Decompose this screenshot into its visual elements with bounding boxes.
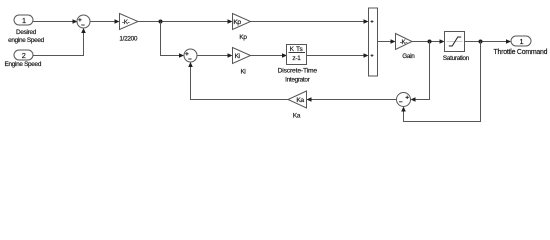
svg-text:1: 1 xyxy=(22,16,26,25)
svg-text:engine Speed: engine Speed xyxy=(8,37,45,44)
svg-text:-K-: -K- xyxy=(400,39,408,46)
junction after Gain xyxy=(428,40,432,44)
svg-text:z-1: z-1 xyxy=(292,55,301,62)
wire gain Kp to sum S4 xyxy=(251,19,369,24)
gain Kp xyxy=(233,14,251,42)
gain Ka (left pointing) xyxy=(288,91,307,120)
svg-text:Ka: Ka xyxy=(293,113,301,120)
svg-text:Desired: Desired xyxy=(16,29,37,36)
junction after saturation xyxy=(479,40,483,44)
wire junction down to sum S2 xyxy=(161,22,185,58)
inport 1 (Desired engine Speed) xyxy=(8,15,45,44)
sum S1 (+ -) xyxy=(77,15,90,28)
svg-text:Throttle Command: Throttle Command xyxy=(493,49,547,56)
wire sum S3 to gain Ka xyxy=(307,97,397,102)
svg-text:Engine Speed: Engine Speed xyxy=(5,61,42,68)
discrete-time integrator block (K Ts / z-1) xyxy=(278,45,318,84)
wire gain Ka to sum S2 bottom input xyxy=(188,62,288,100)
sum S4 (rectangular ++) xyxy=(369,8,378,76)
sum S2 (+ -) xyxy=(184,49,197,62)
wire sum S2 to gain Ki xyxy=(197,53,233,58)
inport 2 (Engine Speed) xyxy=(5,50,42,68)
gain Gain (-K-) xyxy=(396,34,416,60)
wire junction down to sum S3 right input xyxy=(411,42,430,102)
gain Ki xyxy=(233,48,251,76)
sum S3 (+ -) xyxy=(397,93,411,107)
saturation block xyxy=(443,32,470,63)
svg-text:1: 1 xyxy=(519,37,523,46)
gain block -K- (1/2200) xyxy=(119,14,138,43)
svg-text:2: 2 xyxy=(22,51,26,60)
svg-text:Ki: Ki xyxy=(240,68,245,75)
svg-text:1/2200: 1/2200 xyxy=(119,35,137,42)
junction on error signal xyxy=(159,20,163,24)
wire saturation to outport xyxy=(465,39,512,44)
wire junction down and left to sum S3 bottom input xyxy=(401,42,480,122)
outport 1 (Throttle Command) xyxy=(493,36,547,56)
wire inport2 to sum S1 bottom xyxy=(33,28,86,56)
wire inport1 to sum S1 xyxy=(33,19,78,24)
wire gain Ki to discrete-time integrator xyxy=(251,53,288,58)
svg-text:Gain: Gain xyxy=(402,53,415,60)
wire gain Gain to saturation xyxy=(412,39,445,44)
wire gain 1/2200 to gain Kp xyxy=(138,19,233,24)
svg-text:-K-: -K- xyxy=(122,19,130,26)
wire integrator to sum S4 xyxy=(307,53,369,58)
svg-text:Kp: Kp xyxy=(239,34,247,41)
wire sum S4 to gain Gain xyxy=(378,39,396,44)
svg-text:Discrete-Time: Discrete-Time xyxy=(278,68,318,75)
svg-text:Ka: Ka xyxy=(296,97,304,104)
wire sum S1 to gain 1/2200 xyxy=(90,19,120,24)
svg-text:Integrator: Integrator xyxy=(285,77,311,84)
svg-text:Saturation: Saturation xyxy=(443,55,470,62)
svg-text:Kp: Kp xyxy=(233,19,241,26)
